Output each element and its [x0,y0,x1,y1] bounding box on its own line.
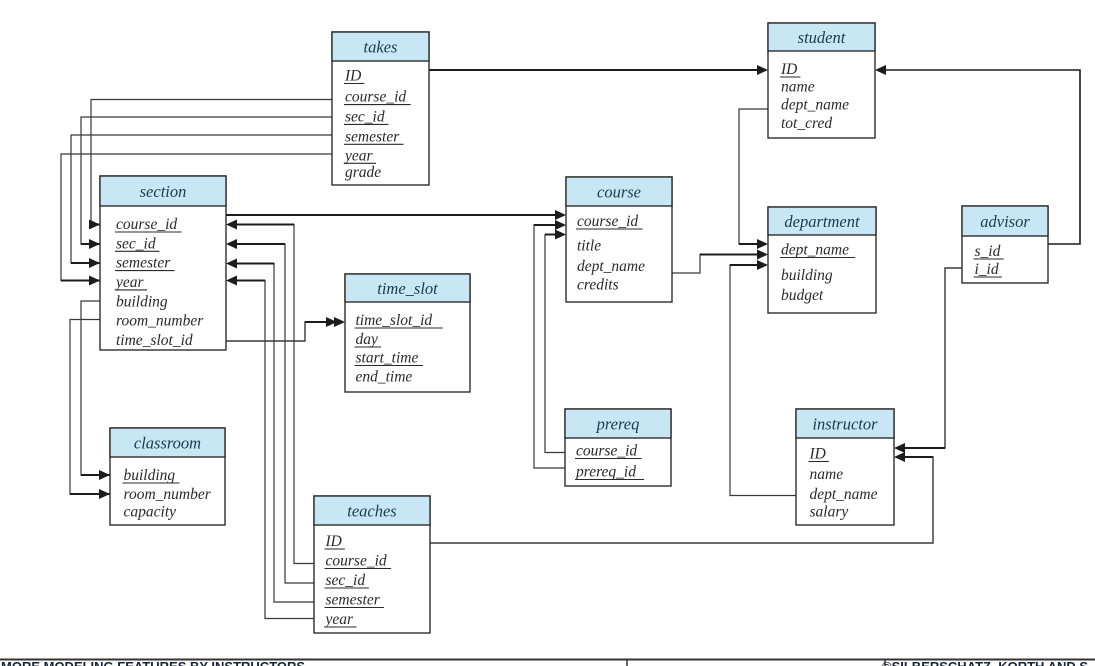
svg-text:©SILBERSCHATZ, KORTH AND S.: ©SILBERSCHATZ, KORTH AND S. [882,659,1092,666]
wire prereq.prereq_id to course.course_id [534,220,566,468]
wire teaches.ID to instructor.ID [430,452,933,543]
wire takes.sec_id to section.sec_id [81,117,332,249]
svg-text:dept_name: dept_name [781,97,849,114]
footer left text (cut off) [1,659,305,666]
wire student.dept_name to department.dept_name [739,109,768,249]
svg-text:dept_name: dept_name [577,258,645,275]
table classroom [110,428,225,525]
wire takes.course_id to section.course_id [89,100,332,230]
svg-text:title: title [577,238,601,255]
svg-text:end_time: end_time [356,369,413,386]
svg-text:building: building [781,267,833,284]
wire teaches.sec_id to section.sec_id [226,239,314,583]
wire advisor.i_id to instructor.ID [894,268,962,453]
svg-text:teaches: teaches [347,501,396,520]
table teaches [314,496,430,633]
svg-text:classroom: classroom [134,433,201,452]
footer divider left [626,660,628,666]
svg-text:dept_name: dept_name [810,486,878,503]
svg-text:time_slot: time_slot [377,279,438,298]
wire advisor.s_id to student.ID [875,65,1080,244]
svg-text:credits: credits [577,277,619,294]
footer right text (cut off) [882,659,1092,666]
svg-text:year: year [324,611,355,628]
svg-text:salary: salary [810,504,849,521]
wire teaches.course_id to section.course_id [226,220,314,564]
svg-text:course_id: course_id [326,553,387,570]
svg-text:room_number: room_number [124,486,212,503]
svg-text:room_number: room_number [116,313,204,330]
svg-text:grade: grade [345,164,381,181]
svg-text:day: day [356,331,379,348]
table student [768,23,875,138]
wire section.room_number to classroom.room_number [70,320,110,500]
svg-text:ID: ID [780,61,797,78]
wire teaches.year to section.year [226,276,314,619]
table section [100,176,226,350]
svg-text:course: course [597,182,641,201]
svg-text:course_id: course_id [116,216,177,233]
svg-text:student: student [798,28,846,47]
table advisor [962,206,1048,283]
svg-text:time_slot_id: time_slot_id [116,332,193,349]
svg-text:course_id: course_id [577,213,638,230]
table course [566,177,672,302]
svg-text:prereq: prereq [596,414,640,433]
svg-text:year: year [114,274,145,291]
wire section.course_id to course.course_id [226,210,566,220]
wire instructor.dept_name to department.dept_name [730,260,796,496]
svg-text:building: building [116,293,168,310]
table takes [332,32,429,185]
wire prereq.course_id to course.course_id [545,230,566,453]
svg-text:dept_name: dept_name [781,242,849,259]
svg-text:prereq_id: prereq_id [575,464,636,481]
svg-text:instructor: instructor [812,414,878,433]
svg-text:section: section [140,182,187,201]
svg-text:start_time: start_time [356,350,419,367]
wire takes.ID to student.ID [429,65,768,75]
svg-text:advisor: advisor [980,212,1030,231]
svg-text:ID: ID [344,68,361,85]
svg-text:i_id: i_id [975,261,999,278]
footer divider right [884,660,886,666]
wire takes.semester to section.semester [71,135,332,268]
svg-text:name: name [781,79,815,96]
svg-text:course_id: course_id [345,89,406,106]
svg-text:building: building [124,467,176,484]
svg-text:semester: semester [116,255,171,272]
svg-text:takes: takes [364,37,398,56]
footer bar top rule [0,659,1095,661]
svg-text:sec_id: sec_id [345,109,385,126]
svg-text:MORE MODELING FEATURES BY INST: MORE MODELING FEATURES BY INSTRUCTORS [1,659,305,666]
wire section.time_slot_id to time_slot.time_slot_id [226,317,345,341]
table instructor [796,409,894,525]
wire teaches.semester to section.semester [226,259,314,603]
svg-text:year: year [343,147,374,164]
table prereq [565,409,671,486]
svg-text:budget: budget [781,287,824,304]
wire course.dept_name to department.dept_name [672,250,768,274]
wire takes.year to section.year [61,154,332,286]
svg-text:ID: ID [809,446,826,463]
svg-text:course_id: course_id [576,443,637,460]
table department [768,207,876,313]
svg-text:tot_cred: tot_cred [781,115,832,132]
svg-text:s_id: s_id [975,243,1001,260]
svg-text:capacity: capacity [124,504,177,521]
svg-text:ID: ID [325,533,342,550]
svg-text:department: department [784,212,860,231]
svg-text:sec_id: sec_id [116,235,156,252]
svg-text:semester: semester [345,128,400,145]
svg-text:sec_id: sec_id [326,572,366,589]
wire section.building to classroom.building [81,301,110,480]
svg-text:semester: semester [326,592,381,609]
table time_slot [345,274,470,392]
svg-text:time_slot_id: time_slot_id [356,312,433,329]
svg-text:name: name [810,466,844,483]
